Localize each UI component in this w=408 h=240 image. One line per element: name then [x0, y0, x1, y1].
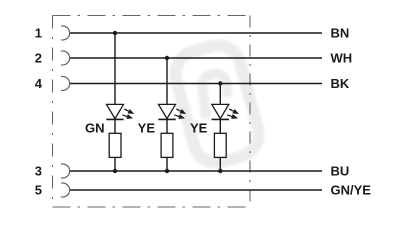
- resistor R3: [214, 133, 226, 157]
- wire pin4 BK: [70, 83, 322, 85]
- border bottom: [53, 206, 251, 208]
- border right: [249, 16, 251, 208]
- resistor R1: [109, 133, 121, 157]
- wire pin2 WH: [70, 57, 322, 59]
- dashed housing border: [53, 16, 251, 208]
- branch 2 wire: [166, 58, 168, 171]
- contact pin 3: [61, 164, 70, 178]
- node on wire4: [218, 81, 222, 85]
- contact pin 1: [61, 26, 70, 40]
- border left: [52, 16, 54, 208]
- svg-text:3: 3: [35, 164, 42, 179]
- border top: [53, 15, 251, 17]
- node on wire2: [165, 56, 169, 60]
- svg-text:1: 1: [35, 26, 42, 41]
- node on wire3 (branch1): [113, 169, 117, 173]
- resistor R2: [161, 133, 173, 157]
- wire pin5 GN/YE: [70, 189, 322, 191]
- svg-text:YE: YE: [138, 121, 156, 136]
- wire pin1 BN: [70, 32, 322, 34]
- svg-text:4: 4: [35, 76, 43, 91]
- svg-text:2: 2: [35, 51, 42, 66]
- branch 3 wire: [219, 84, 221, 172]
- svg-text:BU: BU: [331, 164, 350, 179]
- svg-text:GN: GN: [85, 121, 105, 136]
- svg-text:BN: BN: [331, 26, 350, 41]
- branch 1 wire: [114, 33, 116, 171]
- LED D2 (YE): [158, 104, 186, 119]
- wire pin3 BU: [70, 170, 322, 172]
- svg-text:GN/YE: GN/YE: [331, 183, 372, 198]
- node on wire3 (branch2): [165, 169, 169, 173]
- svg-text:WH: WH: [331, 51, 353, 66]
- svg-text:5: 5: [35, 183, 42, 198]
- node on wire1: [113, 31, 117, 35]
- svg-text:YE: YE: [190, 121, 208, 136]
- svg-text:BK: BK: [331, 76, 350, 91]
- contact pin 2: [61, 51, 70, 65]
- LED D1 (GN): [106, 104, 134, 119]
- contact pin 4: [61, 76, 70, 90]
- LED D3 (YE): [212, 104, 239, 119]
- node on wire3 (branch3): [218, 169, 222, 173]
- contact pin 5: [61, 183, 70, 197]
